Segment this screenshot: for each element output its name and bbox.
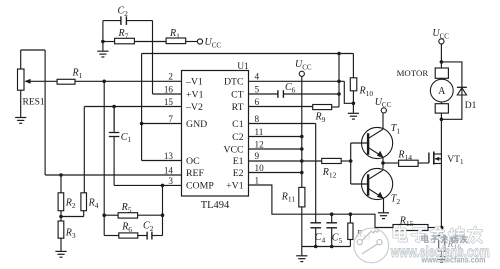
svg-text:GND: GND bbox=[186, 119, 207, 130]
svg-text:E1: E1 bbox=[233, 156, 244, 167]
svg-text:9: 9 bbox=[255, 151, 260, 161]
svg-text:www.elecfans.com: www.elecfans.com bbox=[421, 256, 486, 265]
svg-text:4: 4 bbox=[255, 72, 260, 82]
svg-text:15: 15 bbox=[164, 97, 174, 107]
svg-text:VCC: VCC bbox=[223, 144, 243, 155]
svg-text:14: 14 bbox=[164, 165, 174, 175]
svg-text:A: A bbox=[438, 86, 446, 97]
svg-text:RES1: RES1 bbox=[23, 97, 45, 107]
svg-text:13: 13 bbox=[164, 151, 174, 161]
svg-text:C1: C1 bbox=[232, 119, 244, 130]
svg-text:+V1: +V1 bbox=[186, 89, 204, 100]
svg-text:COMP: COMP bbox=[186, 180, 214, 191]
svg-text:REF: REF bbox=[186, 168, 205, 179]
svg-text:RT: RT bbox=[232, 102, 244, 113]
svg-text:C2: C2 bbox=[232, 132, 244, 143]
svg-text:U1: U1 bbox=[237, 62, 249, 72]
svg-text:11: 11 bbox=[255, 127, 264, 137]
svg-text:D1: D1 bbox=[465, 101, 477, 111]
svg-text:CT: CT bbox=[231, 89, 244, 100]
svg-text:E2: E2 bbox=[233, 168, 244, 179]
svg-text:–V2: –V2 bbox=[185, 102, 203, 113]
svg-text:3: 3 bbox=[168, 176, 173, 186]
svg-text:–V1: –V1 bbox=[185, 77, 203, 88]
svg-text:1: 1 bbox=[255, 175, 260, 185]
svg-text:10: 10 bbox=[255, 163, 265, 173]
svg-text:16: 16 bbox=[164, 84, 174, 94]
svg-text:8: 8 bbox=[255, 114, 260, 124]
svg-text:2: 2 bbox=[168, 72, 173, 82]
svg-text:DTC: DTC bbox=[224, 77, 244, 88]
svg-text:7: 7 bbox=[168, 114, 173, 124]
svg-text:6: 6 bbox=[255, 97, 260, 107]
svg-text:MOTOR: MOTOR bbox=[397, 68, 429, 78]
svg-text:+V1: +V1 bbox=[226, 180, 244, 191]
svg-text:12: 12 bbox=[255, 139, 265, 149]
svg-text:OC: OC bbox=[186, 156, 200, 167]
svg-text:5: 5 bbox=[255, 84, 260, 94]
svg-text:TL494: TL494 bbox=[201, 200, 230, 211]
